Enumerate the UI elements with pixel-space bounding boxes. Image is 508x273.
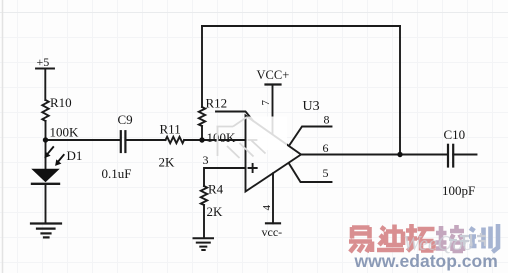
svg-text:www.edatop.com: www.edatop.com — [354, 251, 498, 271]
svg-text:0.1uF: 0.1uF — [102, 166, 132, 181]
vcc- rail bar — [266, 222, 280, 224]
svg-text:R4: R4 — [208, 182, 224, 197]
wire R10 to node — [45, 121, 47, 140]
pin 8 stub — [290, 127, 332, 146]
op-amp U3 triangle — [246, 116, 302, 192]
resistor R12 — [199, 107, 205, 126]
power +5 symbol — [36, 69, 54, 101]
junction node at R10/D1 — [43, 137, 48, 142]
feedback wire top horizontal — [202, 25, 400, 27]
wire node to C9 — [46, 139, 121, 141]
pin 4 wire op-amp to vcc- — [272, 173, 274, 223]
svg-text:100K: 100K — [50, 125, 80, 140]
svg-text:4: 4 — [261, 205, 273, 211]
feedback wire left vertical — [201, 26, 203, 107]
watermark red text: char tuo — [406, 224, 435, 251]
junction node at output/feedback — [397, 152, 402, 157]
watermark gray small text — [449, 233, 486, 246]
watermark wash over op-amp — [247, 117, 287, 151]
svg-text:D1: D1 — [67, 148, 83, 163]
svg-text:100K: 100K — [207, 130, 237, 145]
capacitor C10 — [448, 145, 453, 167]
photodiode D1 cathode bar — [32, 183, 59, 185]
svg-text:R12: R12 — [206, 96, 228, 111]
resistor R10 — [42, 100, 48, 121]
svg-text:C9: C9 — [118, 112, 133, 127]
watermark glyph strokes (light gray) — [217, 117, 266, 158]
D1 light arrow 2 — [55, 154, 64, 166]
watermark text: char pei — [436, 225, 465, 251]
wire R11 to op-amp minus input — [184, 139, 245, 141]
svg-text:R11: R11 — [160, 122, 181, 137]
watermark text: char xun — [469, 224, 498, 252]
plus sign — [249, 164, 257, 172]
svg-text:C10: C10 — [444, 127, 466, 142]
wire C10 right — [453, 154, 476, 156]
svg-text:6: 6 — [323, 141, 329, 155]
ground (under R4) — [194, 238, 214, 250]
VCC+ rail bar — [266, 83, 281, 85]
pin 5 stub — [289, 164, 332, 183]
pin 7 wire VCC+ to op-amp — [272, 85, 274, 135]
svg-text:100pF: 100pF — [442, 183, 475, 198]
pin 2 stub — [216, 112, 253, 121]
wire diode to ground — [45, 184, 47, 224]
watermark red text: char di — [377, 225, 404, 251]
svg-text:5: 5 — [323, 166, 329, 180]
svg-text:VCC+: VCC+ — [257, 68, 290, 82]
resistor R4 — [201, 186, 207, 205]
left page border line — [2, 0, 4, 273]
svg-text:vcc-: vcc- — [262, 225, 283, 239]
svg-text:8: 8 — [324, 113, 330, 127]
svg-text:R10: R10 — [50, 95, 72, 110]
wire R12 to node — [201, 126, 203, 140]
capacitor C9 — [121, 131, 126, 152]
minus sign (washed by watermark) — [249, 139, 257, 141]
svg-text:2K: 2K — [207, 204, 224, 219]
wire C9 to R11 — [125, 139, 165, 141]
wire R4 to ground — [203, 205, 205, 238]
svg-text:3: 3 — [203, 153, 209, 167]
pin 3 wire to plus input — [204, 168, 246, 186]
D1 light arrow 1 — [44, 146, 54, 158]
junction node at R12/R11 — [199, 137, 204, 142]
wire from D1 node down to photodiode — [45, 140, 47, 169]
output wire pin 6 — [301, 154, 448, 156]
feedback wire right vertical — [399, 26, 401, 155]
svg-text:7: 7 — [260, 100, 272, 106]
watermark red text: char yi — [349, 227, 372, 252]
ground (left, under D1) — [31, 224, 61, 238]
photodiode D1 triangle — [33, 169, 59, 181]
svg-text:+5: +5 — [37, 55, 50, 69]
svg-text:U3: U3 — [303, 99, 320, 114]
svg-text:2K: 2K — [159, 155, 176, 170]
resistor R11 — [166, 137, 185, 143]
